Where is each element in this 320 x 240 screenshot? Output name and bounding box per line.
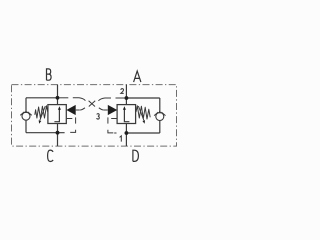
node: A junction (port 2) bbox=[125, 96, 129, 100]
check valve CV1 seat bbox=[20, 112, 31, 116]
node: C junction bbox=[56, 131, 60, 135]
valve V1 flow arrow bbox=[54, 109, 59, 122]
valve V2 spring (adjustable) bbox=[136, 106, 150, 119]
V2 pilot drain (dashed) bbox=[111, 118, 117, 120]
port C label bbox=[48, 150, 54, 161]
valve V2 body bbox=[117, 105, 136, 124]
label 2 (port 2) bbox=[121, 89, 124, 94]
valve V1 pilot piston (triangle) bbox=[66, 105, 75, 115]
node: D junction (port 1) bbox=[125, 131, 129, 135]
wire: V2 pilot stub bbox=[104, 109, 108, 111]
wire: left bottom rail bbox=[26, 132, 65, 134]
wire: left check branch lower bbox=[25, 120, 27, 133]
wire: port A line (boundary to valve V2 top) bbox=[125, 85, 127, 105]
wire: right bottom rail bbox=[126, 132, 159, 134]
wire: right top rail bbox=[126, 97, 159, 99]
wire: port C line (valve V1 bottom to boundary) bbox=[57, 124, 59, 147]
port B label bbox=[47, 69, 52, 80]
port A label bbox=[134, 71, 141, 82]
wire: right check branch lower bbox=[159, 121, 161, 134]
valve V1 spring (adjustable) bbox=[35, 106, 48, 119]
label 1 (port 1) bbox=[120, 136, 122, 142]
enclosure boundary (dash-dot) bbox=[12, 85, 177, 147]
check valve CV1 ball bbox=[22, 112, 30, 120]
check valve CV2 seat bbox=[154, 112, 165, 116]
valve V2 pilot piston (triangle, port 3) bbox=[108, 105, 117, 115]
V1 pilot drain (dashed) bbox=[67, 118, 73, 120]
valve V1 body bbox=[48, 105, 66, 124]
pilot line from A to V1 (dashed) bbox=[116, 97, 125, 99]
wire: port D line (valve V2 bottom to boundary) bbox=[125, 124, 127, 147]
wire: V1 pilot stub bbox=[76, 109, 80, 111]
check valve CV2 ball bbox=[156, 113, 164, 121]
wire: port B line (boundary to valve V1 top) bbox=[57, 85, 59, 105]
label 3 (port 3) bbox=[97, 114, 100, 120]
wire: right check branch upper bbox=[159, 98, 161, 112]
valve V2 flow arrow bbox=[124, 109, 129, 122]
valve V2 adjustment arrow bbox=[138, 106, 143, 120]
port D label bbox=[133, 150, 139, 161]
wire: left check branch upper bbox=[25, 98, 27, 112]
pilot line from B to V2 (dashed) bbox=[59, 97, 68, 99]
node: B junction bbox=[56, 96, 60, 100]
wire: left top rail bbox=[26, 97, 58, 99]
valve V1 adjustment arrow bbox=[40, 106, 45, 120]
